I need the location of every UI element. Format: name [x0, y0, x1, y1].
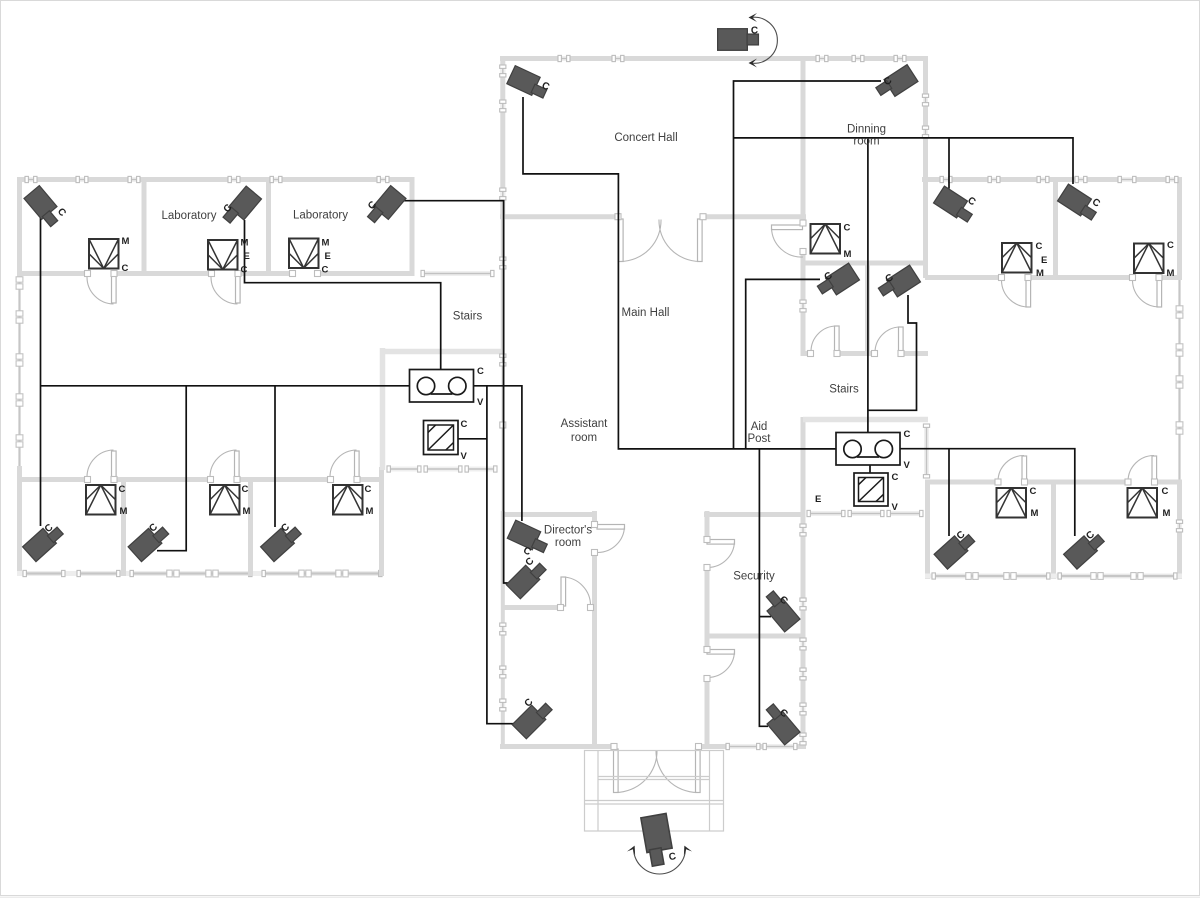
wall rw bottom-rooms top	[925, 480, 997, 485]
window centre east 3	[800, 598, 806, 610]
svg-text:C: C	[892, 472, 899, 483]
window rw top 5	[1118, 176, 1136, 182]
wall directors top	[502, 512, 597, 517]
wall rw mid top	[803, 417, 928, 423]
label M monitor bottom1	[120, 506, 128, 517]
label M monitor lab1	[122, 236, 130, 247]
wall concert top	[500, 56, 927, 61]
label C vmonitor2	[892, 472, 899, 483]
window left-wing top 5	[270, 176, 282, 182]
wall left-wing south band	[17, 571, 384, 576]
window centre south 2	[763, 743, 797, 749]
wall stairs-left west	[380, 348, 386, 470]
door rw room1	[999, 275, 1032, 308]
label C monitor dinning	[844, 223, 851, 234]
door dinning bottom 2	[872, 327, 905, 357]
monitor lab room3	[289, 239, 319, 269]
label V VCR1	[477, 397, 484, 408]
label C VCR1	[477, 366, 484, 377]
svg-text:V: V	[904, 460, 911, 471]
wall centre south	[500, 744, 613, 749]
label Assistant room	[561, 418, 608, 444]
svg-text:M: M	[1036, 268, 1044, 279]
door security 1	[704, 537, 735, 571]
window concert west 4	[500, 257, 506, 269]
svg-text:C: C	[904, 429, 911, 440]
wire lab-cam1 to bottom-cam1	[40, 216, 42, 526]
window stairs-left top long	[421, 270, 494, 276]
svg-text:C: C	[119, 484, 126, 495]
label M monitor lab2	[241, 238, 249, 249]
camera outside dinning	[875, 65, 918, 103]
label Directors room	[544, 524, 592, 549]
window concert top 4	[852, 55, 864, 61]
wire dinning-camA link	[746, 279, 820, 449]
wire VCR1 right to directors-cam1	[474, 386, 522, 521]
wall dinning lower	[803, 261, 928, 266]
label E e-row	[815, 494, 821, 505]
wall lab divider 2	[266, 177, 271, 276]
svg-text:C: C	[1167, 240, 1174, 251]
label C monitor bottom3	[365, 484, 372, 495]
wall lab divider 3	[410, 177, 415, 276]
wall right-wing west upper	[923, 56, 928, 278]
pan arrows entrance camera	[627, 844, 692, 874]
door bottom room3	[328, 450, 361, 483]
window centre east 2	[800, 524, 806, 536]
door rw bottom room2	[1125, 456, 1158, 486]
window hall row 3	[465, 466, 497, 472]
window left-wing top 4	[228, 176, 240, 182]
svg-text:Aid: Aid	[751, 421, 768, 433]
wall concert bottom east	[703, 214, 806, 219]
door directors room	[592, 522, 625, 556]
svg-text:C: C	[477, 366, 484, 377]
wire concert-cam to VCR2 left	[523, 97, 836, 449]
svg-text:M: M	[241, 238, 249, 249]
wall security west low	[705, 679, 710, 749]
svg-text:Stairs: Stairs	[453, 311, 483, 323]
wall dinning divider	[865, 263, 870, 356]
entrance porch	[585, 751, 724, 832]
window concert west 3	[500, 188, 506, 200]
camera bottom room3	[261, 521, 303, 562]
wire rw-cam1 drop	[948, 138, 950, 189]
wall left-wing west top	[17, 177, 22, 278]
wall dinning bottom 2	[839, 351, 874, 356]
window concert west 2	[500, 100, 506, 112]
window left-wing top 1	[25, 176, 37, 182]
wall right-wing east bottom	[1177, 480, 1182, 579]
wall lab divider 1	[142, 177, 147, 276]
video monitor right	[854, 473, 888, 506]
svg-text:C: C	[751, 26, 758, 37]
door directors sub	[558, 577, 594, 611]
door lab room2	[209, 271, 242, 305]
svg-text:room: room	[853, 136, 879, 148]
door rw bottom room1	[995, 456, 1028, 486]
wall concert west	[500, 56, 505, 219]
camera rw bottom room1	[934, 528, 976, 569]
wall bottom-room divider 1	[121, 477, 126, 576]
connector centre west	[500, 422, 506, 428]
wall rw south band	[925, 574, 1182, 579]
VCR unit left	[410, 370, 474, 403]
wall security top	[704, 512, 803, 517]
wire dinning-camB return	[868, 295, 917, 410]
svg-text:Security: Security	[733, 571, 775, 583]
svg-text:room: room	[555, 537, 581, 549]
wire outside-cam loop	[734, 81, 882, 449]
window chain lw south room1a	[23, 570, 65, 576]
label M monitor rw bottom1	[1031, 508, 1039, 519]
window centre east 6	[800, 703, 806, 715]
svg-text:M: M	[1167, 268, 1175, 279]
wire lab-cam3 to directors-cam2	[403, 201, 509, 583]
wall centre west mid	[501, 219, 505, 356]
wall centre west lower	[501, 511, 505, 749]
window E-row 3	[887, 510, 923, 516]
wall hallway bottom 4	[359, 477, 384, 482]
door bottom room1	[85, 450, 118, 483]
svg-text:Post: Post	[747, 433, 771, 445]
svg-text:C: C	[122, 263, 129, 274]
wall rw rooms bottom 2	[1030, 275, 1131, 280]
door bottom room2	[208, 450, 241, 483]
window rw west upper 1	[922, 94, 928, 106]
camera rw room1	[934, 186, 978, 224]
label M monitor rw bottom2	[1163, 508, 1171, 519]
svg-text:M: M	[243, 506, 251, 517]
wire dinning feeder	[734, 138, 1074, 184]
camera assistant	[512, 697, 554, 739]
window centre west lower 2	[500, 666, 506, 678]
wire dinning trunk to VCR2 top	[867, 138, 869, 433]
door entrance double left	[611, 744, 657, 793]
label C monitor rw2	[1167, 240, 1174, 251]
camera pan outside top	[718, 26, 759, 51]
window centre east 7	[800, 733, 806, 745]
window E-row 1	[807, 510, 845, 516]
wall security west mid	[705, 568, 710, 649]
camera bottom room1	[23, 521, 65, 562]
label C monitor bottom1	[119, 484, 126, 495]
label C vmonitor1	[461, 419, 468, 430]
wall left-wing lab bottom 3	[240, 271, 292, 276]
window rw top 1	[940, 176, 952, 182]
svg-text:M: M	[844, 249, 852, 260]
label M monitor dinning	[844, 249, 852, 260]
label M monitor lab3	[322, 238, 330, 249]
svg-text:M: M	[120, 506, 128, 517]
wall rw bottom divider	[1051, 482, 1056, 579]
camera pan entrance	[641, 813, 677, 866]
label M monitor bottom3	[366, 506, 374, 517]
svg-text:C: C	[322, 265, 329, 276]
door lab room1	[85, 271, 118, 305]
wall rw rooms bottom 3	[1161, 275, 1180, 280]
window concert west 1	[500, 65, 506, 77]
wall centre south east	[700, 744, 806, 749]
camera concert hall	[507, 66, 551, 101]
wall right-wing east chain	[1176, 280, 1183, 480]
camera bottom room2	[128, 521, 170, 562]
wire VCR2 to video-monitor2	[869, 466, 871, 474]
monitor dinning	[811, 224, 841, 254]
wall right-wing top	[922, 177, 1180, 182]
label Laboratory 1	[162, 210, 217, 222]
window left-wing top 6	[377, 176, 389, 182]
wire bottom-cam3 riser	[274, 386, 276, 527]
window centre east 5	[800, 668, 806, 680]
window E-row 2	[848, 510, 884, 516]
monitor bottom room2	[210, 485, 240, 515]
wire lab-cam2 to VCR1 top	[245, 220, 441, 369]
wire VCR2 right to rw bottom cams	[900, 449, 1075, 536]
svg-text:E: E	[325, 251, 331, 262]
wall left-wing west bottom	[17, 466, 22, 576]
door main hall double right	[659, 214, 706, 262]
window centre east 1	[800, 300, 806, 312]
label Main Hall	[622, 307, 670, 319]
svg-text:C: C	[1036, 241, 1043, 252]
svg-text:C: C	[461, 419, 468, 430]
label V vmonitor1	[461, 451, 468, 462]
window rw east low	[1176, 520, 1182, 532]
door security 2	[704, 647, 735, 682]
wall hallway bottom	[17, 477, 87, 482]
camera lab room1	[24, 186, 68, 229]
label M monitor rw2	[1167, 268, 1175, 279]
svg-text:Concert Hall: Concert Hall	[614, 132, 677, 144]
pan arrows top camera	[749, 13, 778, 68]
door main hall double left	[615, 214, 661, 262]
svg-text:C: C	[844, 223, 851, 234]
VCR unit right	[836, 433, 900, 466]
svg-text:Director's: Director's	[544, 524, 592, 536]
label Aid Post	[747, 421, 771, 445]
wall security west	[705, 511, 710, 539]
wall directors east	[592, 511, 597, 524]
wall directors east low	[592, 553, 597, 749]
wall rw bottom-rooms top 3	[1156, 480, 1182, 485]
label Concert Hall	[614, 132, 677, 144]
window concert west 5	[500, 354, 506, 366]
monitor lab room1	[89, 239, 119, 269]
svg-text:V: V	[892, 502, 899, 513]
wall concert bottom	[500, 214, 618, 219]
video monitor left	[424, 421, 459, 455]
label Dinning room	[847, 124, 886, 148]
window rw top 4	[1075, 176, 1087, 182]
svg-text:E: E	[1041, 255, 1047, 266]
window centre east 4	[800, 638, 806, 650]
wall centre east mid	[801, 252, 806, 356]
label E monitor lab3	[325, 251, 331, 262]
window rw mid vertical	[923, 424, 929, 478]
window left-wing top 2	[76, 176, 88, 182]
svg-text:Main Hall: Main Hall	[622, 307, 670, 319]
monitor bottom room1	[86, 485, 116, 515]
window rw west upper 2	[922, 126, 928, 138]
wall left-wing lab bottom 2	[116, 271, 211, 276]
wire rw bottom cam1 drop	[948, 449, 950, 536]
label C monitor rw1	[1036, 241, 1043, 252]
label E monitor lab2	[244, 251, 250, 262]
monitor rw room1	[1002, 243, 1032, 273]
svg-text:V: V	[461, 451, 468, 462]
monitor lab room2	[208, 240, 238, 270]
window centre west lower 1	[500, 623, 506, 635]
window concert top 2	[612, 55, 624, 61]
window concert top 3	[816, 55, 828, 61]
monitor rw bottom room1	[997, 488, 1027, 518]
window hall row 1	[387, 466, 421, 472]
label C monitor rw bottom1	[1030, 486, 1037, 497]
svg-text:C: C	[242, 484, 249, 495]
window chain lw south room1b	[77, 570, 120, 576]
wall dinning bottom	[803, 351, 810, 356]
wall rw divider top	[1053, 182, 1058, 278]
wall bottom-room divider 2	[248, 477, 253, 576]
svg-text:Laboratory: Laboratory	[293, 210, 348, 222]
svg-text:room: room	[571, 432, 597, 444]
label Stairs right	[829, 384, 859, 396]
monitor rw room2	[1134, 244, 1164, 274]
camera lab room3	[366, 186, 406, 229]
wire bottom-cam2 riser	[157, 386, 186, 551]
label V VCR2	[904, 460, 911, 471]
svg-text:M: M	[1163, 508, 1171, 519]
label C monitor lab1	[122, 263, 129, 274]
label C monitor bottom2	[242, 484, 249, 495]
wall directors sub	[502, 605, 560, 610]
door entrance double right	[656, 744, 702, 793]
wall stairs-left bottom	[380, 349, 503, 355]
window concert top 5	[894, 55, 906, 61]
wall rw rooms bottom	[925, 275, 1001, 280]
camera rw bottom room2	[1064, 528, 1106, 569]
label E monitor rw1	[1041, 255, 1047, 266]
window centre south	[726, 743, 760, 749]
window rw top 3	[1037, 176, 1049, 182]
svg-text:E: E	[815, 494, 821, 505]
camera lab room2	[221, 186, 261, 229]
wall rw bottom west	[925, 480, 930, 579]
wall right-wing east top	[1177, 177, 1182, 280]
wall dinning bottom 3	[903, 351, 928, 356]
window concert top 1	[558, 55, 570, 61]
wall centre west thin	[502, 356, 504, 511]
svg-text:C: C	[241, 265, 248, 276]
svg-text:C: C	[365, 484, 372, 495]
label C monitor lab3	[322, 265, 329, 276]
wall left-wing west chain	[16, 277, 23, 466]
door lab room3 opening	[290, 271, 321, 277]
window chain rw south room1	[932, 573, 1050, 580]
label Laboratory 2	[293, 210, 348, 222]
svg-text:M: M	[1031, 508, 1039, 519]
wire trunk to VCR1 left	[41, 385, 410, 387]
camera dinning A	[816, 263, 859, 301]
svg-text:C: C	[1162, 486, 1169, 497]
label C VCR2	[904, 429, 911, 440]
wall centre east upper	[801, 56, 806, 222]
svg-text:M: M	[122, 236, 130, 247]
wall left-wing lab bottom	[17, 271, 87, 276]
camera directors 1	[507, 520, 551, 558]
wall hallway bottom 3	[239, 477, 330, 482]
wall security divider	[707, 634, 803, 639]
wall left-wing lab bottom 4	[318, 271, 414, 276]
svg-text:Assistant: Assistant	[561, 418, 608, 430]
label Stairs left	[453, 311, 483, 323]
svg-text:C: C	[1030, 486, 1037, 497]
svg-text:M: M	[366, 506, 374, 517]
window chain lw south room2	[130, 570, 252, 577]
camera directors 2	[506, 556, 548, 599]
svg-text:V: V	[477, 397, 484, 408]
svg-text:M: M	[322, 238, 330, 249]
monitor rw bottom room2	[1128, 488, 1158, 518]
camera dinning B	[877, 265, 920, 303]
wire VCR1 branch to assistant-cam	[487, 386, 516, 724]
wall hallway bottom 2	[116, 477, 210, 482]
label V vmonitor2	[892, 502, 899, 513]
camera security 1	[760, 589, 800, 632]
window hall row 2	[424, 466, 462, 472]
svg-text:Laboratory: Laboratory	[162, 210, 217, 222]
svg-text:Dinning: Dinning	[847, 124, 886, 136]
door dinning entry	[772, 220, 807, 257]
label M monitor bottom2	[243, 506, 251, 517]
wall rw bottom-rooms top 2	[1026, 480, 1127, 485]
monitor bottom room3	[333, 485, 363, 515]
label M monitor rw1	[1036, 268, 1044, 279]
wall centre east lower	[801, 417, 806, 749]
window chain rw south room2	[1058, 573, 1177, 580]
svg-text:Stairs: Stairs	[829, 384, 859, 396]
label Security	[733, 571, 775, 583]
wall left-wing top	[17, 177, 414, 182]
wire security cam1 branch	[759, 616, 771, 618]
camera security 2	[760, 702, 800, 745]
svg-text:E: E	[244, 251, 250, 262]
wire security trunk	[759, 449, 768, 726]
window rw top 2	[988, 176, 1000, 182]
label C monitor lab2	[241, 265, 248, 276]
window centre west lower 3	[500, 699, 506, 711]
wire video-monitor1 link	[458, 438, 487, 440]
camera rw room2	[1058, 184, 1102, 222]
door dinning bottom 1	[808, 326, 841, 357]
wall left-wing east	[379, 467, 384, 576]
door rw room2	[1130, 275, 1163, 308]
window left-wing top 3	[128, 176, 140, 182]
label C monitor rw bottom2	[1162, 486, 1169, 497]
window rw top 6	[1166, 176, 1178, 182]
window chain lw south room3	[262, 570, 382, 577]
